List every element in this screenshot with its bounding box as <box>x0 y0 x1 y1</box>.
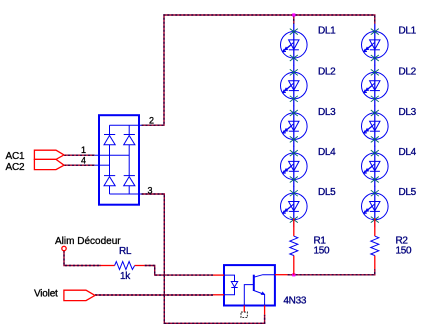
svg-text:1k: 1k <box>120 271 131 282</box>
LED DL2 column 2 <box>362 65 389 107</box>
connector Violet <box>64 290 95 300</box>
unconnected base pin square <box>241 312 247 317</box>
junction dot top rail <box>292 13 295 16</box>
svg-text:DL3: DL3 <box>399 107 417 118</box>
LED DL3 column 1 <box>281 105 308 147</box>
svg-text:DL2: DL2 <box>318 66 336 77</box>
bridge right column wires <box>128 125 130 194</box>
optocoupler emitter pin <box>264 306 266 315</box>
svg-text:3: 3 <box>148 185 153 195</box>
bridge rectifier outline <box>99 115 139 205</box>
diode D1 top-left <box>104 135 115 145</box>
optocoupler cathode pin <box>213 294 224 296</box>
diode D3 bottom-left <box>104 176 115 186</box>
LED DL4 column 1 <box>281 146 308 188</box>
resistor RL right lead <box>135 265 145 267</box>
wire bridge pin 2 riser and top rail <box>142 15 375 125</box>
svg-text:1: 1 <box>81 145 86 155</box>
optocoupler base pin <box>243 306 245 313</box>
terminal Alim Decodeur <box>62 246 66 250</box>
wire Alim Decodeur terminal to RL <box>64 251 101 266</box>
LED DL3 column 2 <box>362 105 389 147</box>
bridge inner top rail pin 2 stub <box>110 124 142 126</box>
svg-text:4N33: 4N33 <box>283 296 306 307</box>
optocoupler phototransistor base bar <box>253 275 255 291</box>
connector AC1 <box>34 150 64 159</box>
wire AC2 to bridge pin 4 <box>64 164 95 166</box>
resistor R2 zigzag <box>371 236 379 255</box>
LED DL2 column 1 <box>281 65 308 107</box>
resistor RL left lead <box>101 265 115 267</box>
LED DL1 column 2 <box>362 24 389 66</box>
LED column 2 wire <box>374 24 376 218</box>
svg-text:150: 150 <box>396 246 413 257</box>
junction dot bottom rail <box>292 273 295 276</box>
optocoupler base lead <box>244 285 254 306</box>
optocoupler U1 box <box>224 265 275 305</box>
bridge pin 1 line <box>95 154 130 156</box>
svg-text:DL4: DL4 <box>318 147 336 158</box>
wire AC1 to bridge pin 1 <box>64 154 95 156</box>
diode D2 top-right <box>124 135 135 145</box>
resistor R2 leads <box>374 218 376 269</box>
LED DL5 column 1 <box>281 186 308 228</box>
bridge left column wires <box>109 125 111 194</box>
svg-text:DL5: DL5 <box>318 187 336 198</box>
svg-text:DL1: DL1 <box>318 26 336 37</box>
optocoupler internal LED <box>224 275 235 295</box>
svg-text:150: 150 <box>314 246 331 257</box>
optocoupler anode pin <box>213 274 224 276</box>
wire bridge pin 3 riser to optocoupler emitter <box>142 194 265 323</box>
svg-text:Violet: Violet <box>34 289 58 300</box>
svg-text:Alim Décodeur: Alim Décodeur <box>55 236 121 247</box>
LED column 1 wire <box>293 24 295 218</box>
svg-text:DL2: DL2 <box>399 66 417 77</box>
bridge pin 4 line <box>95 164 110 166</box>
wire RL to optocoupler anode pin <box>145 266 213 276</box>
wire optocoupler collector bottom rail to R1 R2 <box>288 269 375 275</box>
wire top rail drop to DL1 column 1 <box>293 15 295 24</box>
bridge inner bottom rail pin 3 stub <box>110 193 142 195</box>
svg-text:DL1: DL1 <box>399 26 417 37</box>
svg-text:2: 2 <box>149 115 154 125</box>
svg-text:DL3: DL3 <box>318 107 336 118</box>
LED DL4 column 2 <box>362 146 389 188</box>
svg-text:4: 4 <box>81 155 86 165</box>
svg-text:DL4: DL4 <box>399 147 417 158</box>
svg-text:RL: RL <box>119 246 132 257</box>
svg-text:AC2: AC2 <box>6 162 25 173</box>
svg-text:AC1: AC1 <box>6 151 25 162</box>
diode D4 bottom-right <box>124 176 135 186</box>
svg-text:DL5: DL5 <box>399 187 417 198</box>
resistor R1 leads <box>293 218 295 275</box>
LED DL5 column 2 <box>362 186 389 228</box>
wire Violet to optocoupler cathode pin <box>95 294 213 296</box>
resistor R1 zigzag <box>290 236 298 255</box>
optocoupler phototransistor emitter <box>254 291 265 306</box>
optocoupler phototransistor collector <box>254 275 275 278</box>
resistor RL zigzag <box>115 262 135 270</box>
optocoupler collector pin <box>275 274 288 276</box>
LED DL1 column 1 <box>281 24 308 66</box>
connector AC2 <box>34 159 64 169</box>
